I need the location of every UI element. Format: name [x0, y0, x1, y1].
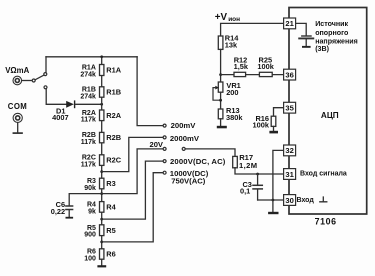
svg-text:2000V(DC, AC): 2000V(DC, AC) [170, 157, 226, 166]
svg-text:R1B: R1B [106, 88, 121, 97]
switch S1 lever [35, 75, 44, 80]
svg-text:274k: 274k [80, 93, 96, 100]
pin 30 [284, 195, 296, 206]
capacitor C6 [66, 206, 73, 210]
svg-text:Вход сигнала: Вход сигнала [300, 171, 347, 178]
terminal COM [13, 113, 22, 122]
wire pin 35 to R16 [274, 108, 284, 117]
resistor R12 [234, 72, 246, 76]
wire R16 to ground [273, 126, 275, 130]
label reference source [315, 20, 358, 53]
diode D1 labels [52, 106, 68, 122]
+Vion label [215, 12, 240, 23]
svg-text:R2B: R2B [106, 133, 121, 142]
node C3 top [256, 173, 259, 176]
svg-text:(3В): (3В) [315, 45, 329, 53]
wire C6 stub [68, 210, 70, 216]
resistor R1A [100, 65, 104, 76]
ground chain bottom [97, 265, 106, 267]
svg-text:R1A: R1A [106, 66, 121, 75]
plug circle to R17 [182, 147, 185, 150]
wire top rail [46, 56, 137, 58]
svg-text:R4: R4 [106, 203, 116, 212]
terminal circle 2000V [163, 160, 166, 163]
svg-text:0,22: 0,22 [51, 207, 65, 216]
resistor R14 [218, 36, 223, 49]
svg-text:100k: 100k [257, 62, 274, 71]
capacitor C3 labels [240, 180, 252, 196]
wire 2000V tap [102, 161, 163, 219]
svg-text:36: 36 [285, 70, 293, 79]
svg-text:1,5k: 1,5k [234, 62, 249, 71]
resistor R6 [100, 249, 104, 259]
svg-text:117k: 117k [81, 162, 96, 169]
capacitor C3 [257, 174, 259, 184]
wire COM stub [17, 123, 19, 133]
svg-text:90k: 90k [84, 185, 96, 192]
ground R13 [217, 126, 227, 129]
svg-text:VΩmA: VΩmA [5, 66, 29, 75]
svg-text:200: 200 [226, 88, 238, 97]
resistor R3 [100, 178, 104, 189]
resistor R1B [100, 87, 104, 97]
wire diode cathode to chain [75, 103, 101, 105]
svg-text:117k: 117k [81, 117, 96, 124]
svg-text:30: 30 [285, 196, 293, 205]
wire pin 21 to reference battery [297, 23, 307, 35]
node tap R3/R4 [100, 192, 103, 195]
terminal VOmA [13, 76, 22, 85]
wire plug to R17 [185, 149, 235, 157]
wire 20V tap [102, 149, 163, 194]
wire bottom contact down to diode [46, 89, 66, 104]
wire VR1 to R13 [220, 92, 222, 109]
ground bar analog common [268, 212, 278, 214]
terminal circle 20V [163, 147, 166, 150]
svg-text:опорного: опорного [315, 29, 349, 37]
wire terminal to switch pivot [22, 80, 32, 82]
svg-text:100k: 100k [253, 120, 270, 129]
wire +V to pin 21 [221, 23, 283, 36]
wire R14 to node [220, 49, 222, 82]
resistor R4 [100, 202, 104, 213]
capacitor C6 labels [51, 200, 65, 216]
label input ground [297, 197, 315, 204]
svg-text:1,2M: 1,2M [239, 161, 257, 170]
COM end bar [13, 132, 22, 134]
resistor R13 [218, 109, 223, 119]
diode D1 [66, 100, 75, 108]
terminal circle 2000mV [163, 136, 166, 139]
node tap R5/R6 [100, 241, 103, 244]
svg-text:+V: +V [215, 12, 228, 23]
terminal COM label [8, 102, 27, 111]
pin 35 [284, 102, 296, 113]
svg-text:380k: 380k [226, 113, 243, 122]
svg-text:R2C: R2C [106, 156, 121, 165]
svg-text:COM: COM [8, 102, 27, 111]
ground battery [302, 46, 311, 48]
svg-text:35: 35 [285, 104, 294, 113]
wire R17 to pin 31 [235, 168, 283, 174]
wire C3 to pin 30 [258, 199, 283, 201]
svg-text:13k: 13k [225, 40, 238, 49]
svg-text:117k: 117k [81, 139, 96, 146]
svg-text:9k: 9k [88, 208, 96, 215]
wire 1000V tap [102, 173, 163, 242]
label input signal [300, 171, 347, 178]
svg-text:100: 100 [84, 255, 96, 262]
pin 32 [284, 145, 296, 156]
svg-text:20V: 20V [149, 140, 163, 149]
svg-text:Источник: Источник [315, 20, 348, 28]
svg-text:200mV: 200mV [171, 121, 197, 130]
svg-text:R3: R3 [106, 179, 115, 188]
wire R12 row to pin 36 [221, 74, 283, 76]
svg-text:R2A: R2A [106, 111, 121, 120]
C6 end bar [66, 217, 74, 219]
node VR1 bottom [219, 99, 222, 102]
wire C6 tap [69, 194, 102, 206]
potentiometer VR1 [218, 82, 223, 92]
terminal circle 1000V [163, 171, 166, 174]
svg-text:7106: 7106 [315, 216, 337, 226]
svg-text:900: 900 [84, 232, 96, 239]
resistor R16 [271, 116, 276, 126]
svg-text:750V(AC): 750V(AC) [171, 176, 206, 185]
svg-text:R6: R6 [106, 250, 115, 259]
svg-text:4007: 4007 [52, 113, 68, 122]
resistor R2B [100, 132, 104, 142]
pin 21 [284, 18, 296, 29]
svg-text:Вход: Вход [297, 197, 315, 204]
resistor R17 [233, 156, 238, 167]
battery reference 3V [302, 35, 311, 37]
svg-text:21: 21 [285, 19, 294, 28]
node diode-chain junction [100, 103, 103, 106]
wire pin 32 to ground column [273, 150, 283, 211]
resistor R2A [100, 110, 104, 121]
terminal circle 200mV [163, 124, 166, 127]
label 7106 [315, 216, 337, 226]
node chain top [100, 55, 103, 58]
svg-text:274k: 274k [80, 71, 96, 78]
svg-text:31: 31 [285, 170, 294, 179]
terminal VOmA label [5, 66, 29, 75]
VR1 wiper arrow [215, 86, 219, 90]
node tap R2C/R3 [100, 170, 103, 173]
svg-text:32: 32 [285, 146, 293, 155]
pin 36 [284, 69, 296, 80]
wire 2000mV tap [102, 137, 163, 171]
node tap R4/R5 [100, 218, 103, 221]
wire 200mV tap [137, 57, 163, 126]
svg-text:R5: R5 [106, 226, 115, 235]
node ground junction [272, 199, 275, 202]
svg-text:0,1: 0,1 [240, 187, 250, 196]
pin 31 [284, 169, 296, 180]
switch S1 bottom contact [44, 86, 47, 89]
node R12 junction [219, 73, 222, 76]
resistor R5 [100, 225, 104, 236]
svg-text:ион: ион [228, 16, 240, 23]
svg-text:2000mV: 2000mV [170, 134, 200, 143]
switch S1 top contact [44, 73, 47, 76]
resistor R2C [100, 155, 104, 166]
wire top contact to top rail [45, 57, 47, 73]
ground R16 [269, 131, 278, 134]
wire resistor chain spine [101, 57, 103, 265]
label ADC [321, 111, 339, 120]
resistor R25 [259, 72, 272, 76]
op IC 7106 body [289, 8, 367, 215]
svg-text:АЦП: АЦП [321, 111, 339, 120]
switch S1 pivot [32, 79, 35, 82]
wire R13 to ground [220, 119, 222, 126]
